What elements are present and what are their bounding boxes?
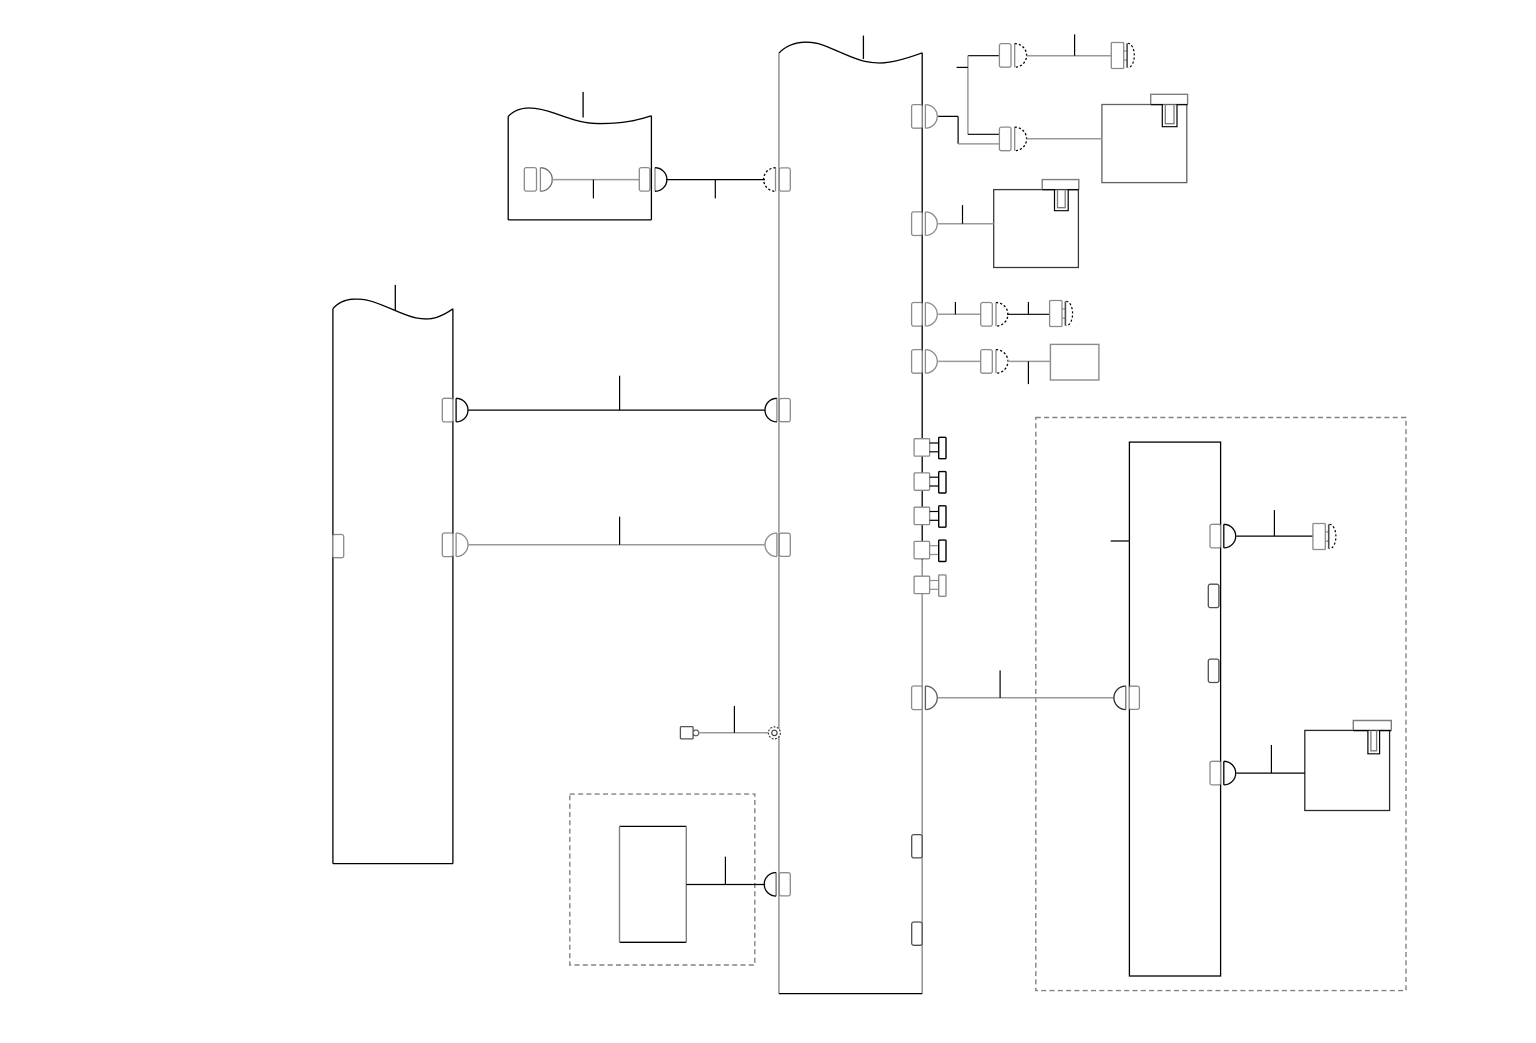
connector X5 (on trunk right edge) <box>912 212 938 236</box>
connector X18 (on trunk left edge, dashed mate) <box>764 168 791 192</box>
trunk stub line <box>862 36 864 59</box>
connector X26 (on A1 right edge) <box>1210 761 1236 785</box>
wire tick (X6-X7) <box>954 302 956 314</box>
inline splice S3 <box>914 506 946 527</box>
connector X23 (on trunk left edge) <box>764 873 790 897</box>
wire branch (net N1, black + gray riser) <box>968 56 1000 135</box>
wire tick (X21-ring) <box>733 706 735 733</box>
relay box U2 (T-tab, mid) <box>994 180 1079 268</box>
connector X1 (pair, dashed mate) <box>999 44 1026 68</box>
wire X3 to X4 (black/gray L) <box>938 116 999 143</box>
wire M1 to X23 (black) <box>686 884 765 886</box>
wire tick (X17-X18, below) <box>714 180 716 199</box>
relay box U3 (T-tab, right module) <box>1305 721 1392 811</box>
connector X17 (on W2 box right edge) <box>639 168 667 192</box>
stub connector X15 (left branch left edge) <box>333 535 344 558</box>
wire X10 to M2 (gray) <box>1007 360 1050 362</box>
harness trunk bundle W0 (torn-paper outline) <box>779 42 922 993</box>
device box M2 (plain, row y360) <box>1050 344 1099 380</box>
wire tick (X16-X17, below) <box>592 180 594 199</box>
dashed enclosure (right module) <box>1036 418 1406 991</box>
connector X24 (on A1 right edge) <box>1210 524 1236 548</box>
inline splice S5 <box>914 575 946 596</box>
connector X3 (on trunk right edge) <box>912 105 938 129</box>
device box M1 (inside bottom dashed enclosure) <box>620 826 687 942</box>
wire tick (M1-X23) <box>724 857 726 885</box>
left branch bundle W1 (torn outline) <box>333 299 453 863</box>
wire tick (X11-X12) <box>619 376 621 410</box>
connector X6 (on trunk right edge) <box>912 303 938 327</box>
inline splice S4 <box>914 540 946 561</box>
connector X9 (on trunk right edge) <box>912 350 938 374</box>
connector X7 (pair, dashed mate) <box>981 303 1008 327</box>
dashed enclosure (bottom module) <box>570 794 755 965</box>
stud terminal X21 (square+ball) <box>680 727 698 739</box>
stub pin X28 (trunk right edge) <box>912 922 922 945</box>
top-left branch bundle W2 (torn outline) <box>508 108 651 220</box>
wire X13 to X14 (gray) <box>468 544 765 546</box>
stub pin X30 (A1 right edge) <box>1208 659 1219 682</box>
stub pin X27 (trunk right edge) <box>912 835 922 858</box>
wire tick (X1-X2) <box>1074 34 1076 55</box>
ring terminal X22 (on trunk left edge) <box>768 727 780 739</box>
tick on A1 left edge <box>1111 540 1130 542</box>
inline splice S2 <box>914 472 946 493</box>
inline splice S1 <box>914 437 946 458</box>
connector X11 (on left branch right edge) <box>442 398 468 422</box>
wire tick (X24-X25) <box>1273 510 1275 536</box>
wire tick (X19-X20) <box>999 670 1001 697</box>
wire X1 to X2 (gray) <box>1027 55 1112 57</box>
wire X7 to X8 (black) <box>1007 313 1050 315</box>
left branch stub line <box>394 285 396 310</box>
connector X4 (pair, dashed mate) <box>999 127 1026 151</box>
connector X20 (on A1 left edge) <box>1114 686 1139 710</box>
wire X11 to X12 (black) <box>468 409 765 411</box>
wire X16 to X17 (gray) <box>551 179 639 181</box>
wire X26 to U3 (black) <box>1237 772 1305 774</box>
connector X16 (inside W2 box) <box>524 168 552 192</box>
wire tick (X7-X8) <box>1027 302 1029 314</box>
wire tick (X10-M2, below) <box>1027 361 1029 384</box>
connector X12 (on trunk left edge) <box>765 398 790 422</box>
connector X2 (mating face, dashed) <box>1111 43 1134 69</box>
top-left branch stub line <box>582 92 584 118</box>
wire tick (X26-U3) <box>1270 745 1272 773</box>
wire tick (X5-U2) <box>962 205 964 224</box>
wire X5 to U2 (gray) <box>938 223 994 225</box>
wire X9 to X10 (gray) <box>938 360 981 362</box>
wire X4 to U1 (gray) <box>1027 138 1102 140</box>
stub pin X29 (A1 right edge) <box>1208 584 1219 607</box>
wire X21 to ring (gray) <box>699 732 769 734</box>
junction tick on riser N1 <box>957 66 968 68</box>
connector X10 (pair, dashed mate) <box>981 350 1008 374</box>
relay box U1 (T-tab, top right) <box>1102 94 1188 182</box>
connector X14 (on trunk left edge) <box>765 533 790 557</box>
wire X6 to X7 (gray) <box>938 313 981 315</box>
wire X19 to X20 (gray) <box>938 697 1113 699</box>
connector X13 (on left branch right edge) <box>442 533 468 557</box>
wire X24 to X25 (black) <box>1237 535 1313 537</box>
wire X17 to X18 (black) <box>666 179 765 181</box>
connector X8 (mating face, dashed) <box>1050 301 1073 327</box>
wire tick (X13-X14) <box>619 517 621 545</box>
connector X19 (on trunk right edge) <box>912 686 938 710</box>
control unit A1 (tall rectangle, right module) <box>1129 442 1220 976</box>
connector X25 (mating face, dashed) <box>1313 524 1336 550</box>
